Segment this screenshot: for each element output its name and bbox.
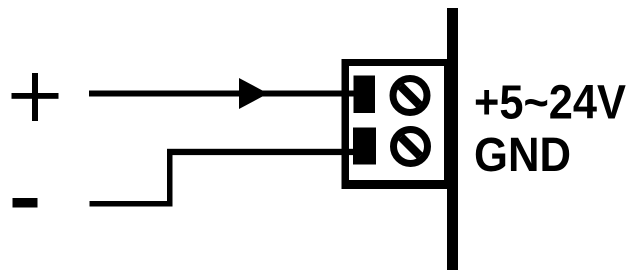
device panel edge xyxy=(447,8,458,270)
terminal block pin 2 screw xyxy=(394,130,428,164)
terminal block TB1 outline xyxy=(342,59,452,189)
terminal block pin 1 contact xyxy=(354,76,376,114)
svg-text:GND: GND xyxy=(474,129,571,182)
label +5~24V xyxy=(474,77,626,130)
label GND xyxy=(474,129,571,182)
wire negative lead xyxy=(90,149,355,207)
terminal block pin 1 screw xyxy=(393,79,427,113)
node + (positive supply terminal) xyxy=(12,73,59,121)
terminal block pin 2 contact xyxy=(353,128,376,165)
node - (negative supply terminal) xyxy=(13,198,38,208)
arrowhead on positive wire xyxy=(239,78,268,109)
svg-text:+5~24V: +5~24V xyxy=(474,77,626,130)
wire positive lead xyxy=(89,91,354,97)
